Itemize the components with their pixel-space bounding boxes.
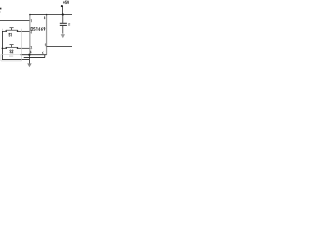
capacitor label C1 (67, 23, 70, 25)
switch S2 moving bar (6, 46, 18, 48)
pin number 4 (bottom left inside) (30, 51, 31, 53)
wire bottom pin horizontal (y=57.6) (24, 57, 45, 59)
wire bottom rail (2, 59, 29, 61)
capacitor C1 bottom plate (60, 24, 67, 27)
wire pin5 (right mid, runs off right edge) (47, 45, 72, 47)
IC U1 body bottom edge (29, 54, 46, 56)
+5V terminal dot (61, 5, 63, 7)
wire S1 right to pin2 (18, 30, 30, 32)
label S1 (9, 33, 10, 36)
cut-off label at left edge (0, 8, 1, 10)
IC U1 body left edge (light) (29, 14, 31, 55)
dashed enclosure left edge (faint) (0, 54, 2, 60)
node junction S2/rail (2, 48, 4, 50)
wire junction to capacitor (62, 14, 64, 22)
capacitor C1 top plate (60, 22, 67, 25)
dashed enclosure top-left tick (faint) (2, 29, 4, 31)
wire capacitor to ground (62, 26, 64, 33)
switch S2 terminals (6, 48, 7, 49)
pin number 1 (30, 20, 32, 23)
node junction IC bottom (28, 54, 30, 56)
dashed enclosure bottom (faint) (1, 60, 22, 62)
pin number 3 (31, 46, 32, 49)
wire S2 right to pin3 (18, 47, 30, 49)
dashed enclosure mid line (faint) (1, 53, 20, 55)
switch S1 stem (11, 28, 13, 30)
IC U1 DS1669 body top edge (29, 13, 46, 15)
ground arrow (bottom) (27, 63, 32, 67)
dashed enclosure right edge (faint) (21, 29, 23, 61)
node junction dot (VCC rail) (62, 13, 64, 15)
wire +5V vertical (62, 6, 64, 14)
switch S2 stem (11, 45, 13, 47)
wire left rail vertical (1, 31, 3, 60)
IC U1 body right edge (light) (46, 14, 48, 55)
label +5V (63, 1, 65, 4)
wire IC bottom to rail (28, 55, 30, 64)
pin number 6 (bottom mid inside) (41, 52, 44, 53)
pin number 8 (43, 17, 46, 18)
IC value label DS1669 (31, 27, 33, 30)
switch S1 terminals (6, 31, 7, 32)
IC corner marks (29, 14, 30, 15)
wire IC bottom edge extension left (21, 54, 30, 56)
wire bottom pin stub (x=44.8) (44, 55, 46, 58)
pin number 5 (right mid) (44, 44, 47, 46)
wire S1 left (2, 30, 6, 32)
ground arrow (right, below capacitor) (62, 33, 64, 35)
switch S1 button cap (10, 26, 14, 29)
switch S1 moving bar (6, 29, 18, 31)
faint text smudge (9, 55, 13, 56)
switch S2 button cap (10, 43, 14, 46)
label S2 (10, 50, 11, 53)
wire pin8 to +5V rail (runs off right edge) (47, 13, 72, 15)
pin number 2 (31, 30, 32, 33)
wire pin1 (left top, runs off left edge) (0, 20, 29, 22)
wire S2 left to rail (2, 47, 6, 49)
